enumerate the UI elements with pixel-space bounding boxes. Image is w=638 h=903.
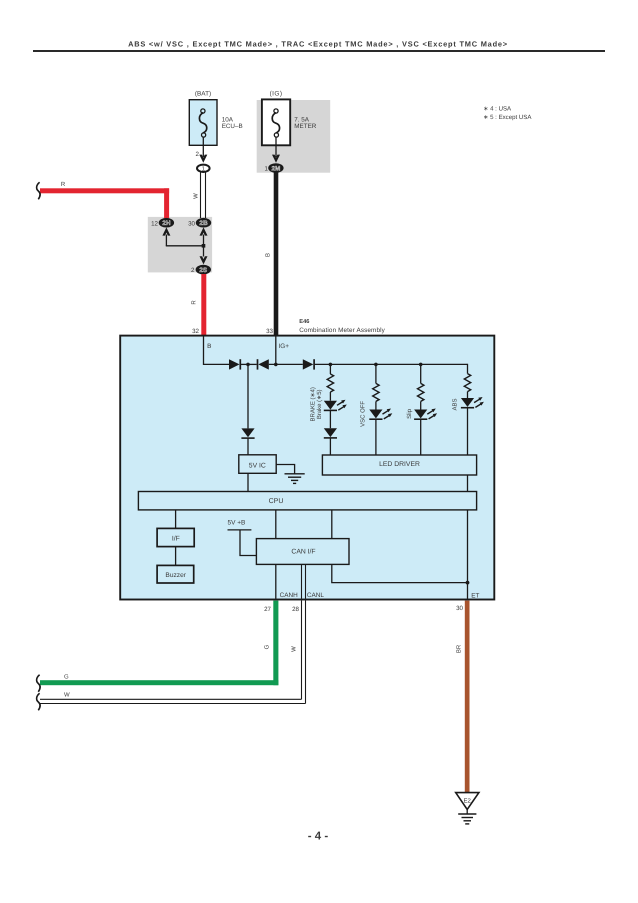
wire R red from left edge to 2H (40, 188, 169, 193)
resistor R1 (327, 374, 333, 392)
wire CPU to I/F (175, 510, 177, 529)
wire from pin B (204, 336, 230, 364)
LED BRAKE indicator (324, 400, 347, 411)
svg-text:5V +B: 5V +B (228, 520, 246, 527)
LED ABS indicator (461, 397, 484, 408)
svg-text:Brake (∗5): Brake (∗5) (316, 389, 323, 419)
node dot VSC OFF column (374, 363, 378, 367)
LED Slip indicator (414, 409, 437, 420)
wire (269, 363, 303, 365)
title header (33, 40, 605, 52)
LED DRIVER box (322, 455, 476, 475)
resistor R3 (418, 383, 424, 401)
junction block J/B gray background (148, 217, 212, 273)
wire (329, 410, 331, 428)
wire inside J/B (165, 235, 167, 246)
svg-text:ECU–B: ECU–B (222, 123, 243, 130)
svg-text:IG+: IG+ (279, 343, 290, 350)
wire (420, 419, 422, 455)
svg-text:2S: 2S (199, 267, 208, 274)
wire ABS column (467, 364, 469, 374)
resistor R2 (373, 383, 379, 401)
wire R red from 2S to meter pin 32 (201, 274, 206, 337)
svg-text:G: G (64, 674, 69, 681)
svg-text:- 4 -: - 4 - (308, 831, 329, 843)
diode D3 (303, 359, 314, 369)
svg-text:32: 32 (192, 328, 199, 335)
wire (247, 438, 249, 455)
wire 5V IC to CPU (247, 473, 249, 491)
wire-end squiggle (37, 693, 41, 710)
wire from pin IG+ (275, 336, 277, 364)
I/F box (157, 528, 194, 546)
junction square (202, 244, 206, 248)
svg-text:∗ 5 : Except USA: ∗ 5 : Except USA (483, 114, 532, 121)
svg-text:2H: 2H (162, 220, 171, 227)
node junction dot (246, 363, 250, 367)
svg-text:CPU: CPU (269, 498, 284, 505)
wire VSC OFF column (375, 364, 377, 383)
arrow up into 2B (200, 227, 208, 235)
svg-text:ABS <w/ VSC , Except TMC Made>: ABS <w/ VSC , Except TMC Made> , TRAC <E… (128, 40, 508, 49)
svg-text:2B: 2B (199, 220, 208, 227)
wire-end squiggle (37, 675, 41, 692)
diode D5 (241, 428, 254, 437)
svg-text:G: G (263, 644, 270, 649)
svg-text:CANL: CANL (307, 592, 324, 599)
resistor R4 (464, 374, 470, 392)
connector 2S oval (191, 266, 210, 275)
ground E2 (456, 793, 479, 824)
wire-end squiggle (37, 182, 41, 199)
node dot Slip column (419, 363, 423, 367)
wire to ground (276, 465, 294, 474)
svg-text:12: 12 (151, 220, 158, 227)
wire from fuse IG to connector 2M (275, 137, 277, 157)
svg-text:E2: E2 (464, 797, 472, 804)
arrow into connector 2M (272, 155, 280, 163)
svg-text:B: B (265, 253, 272, 257)
diode D2 (257, 359, 259, 369)
fuse F1 (BAT) 10A ECU-B (189, 91, 217, 146)
wire from fuse BAT to connector 1 (202, 137, 204, 157)
wire (467, 408, 469, 455)
svg-text:1: 1 (265, 166, 269, 173)
svg-text:ABS: ABS (451, 398, 458, 410)
svg-text:CANH: CANH (280, 592, 298, 599)
diode D4 (324, 428, 337, 437)
wire (375, 401, 377, 409)
wire (241, 363, 257, 365)
svg-text:W: W (291, 646, 298, 652)
CPU box (138, 492, 476, 510)
svg-text:CAN I/F: CAN I/F (291, 548, 315, 555)
wire 5V IC branch (247, 364, 249, 428)
wire CANH inside (275, 564, 277, 598)
connector 1 oval (197, 165, 210, 172)
wire W white double from connector 1 to 2B (200, 172, 202, 218)
CAN I/F box (256, 539, 349, 565)
wire (329, 438, 331, 455)
E46 combination meter assembly box (120, 336, 494, 600)
svg-text:BR: BR (455, 644, 462, 653)
wire (329, 392, 331, 401)
5V IC box (239, 455, 276, 474)
connector 2B oval (188, 219, 210, 228)
svg-text:27: 27 (264, 606, 271, 613)
wire CPU to CAN I/F right (331, 510, 333, 539)
bus wire to LED columns (315, 363, 468, 365)
wire BR brown from pin 30 (465, 601, 470, 793)
svg-text:(IG): (IG) (270, 91, 283, 98)
svg-text:30: 30 (188, 220, 195, 227)
svg-text:BRAKE (∗4): BRAKE (∗4) (309, 387, 316, 421)
IG fuse gray background (257, 100, 331, 173)
arrow up into 2H (162, 227, 170, 235)
svg-text:(BAT): (BAT) (195, 91, 211, 98)
svg-text:Buzzer: Buzzer (165, 572, 186, 579)
svg-text:2M: 2M (271, 165, 280, 172)
svg-text:2: 2 (196, 151, 200, 158)
svg-text:R: R (191, 300, 198, 305)
svg-text:28: 28 (292, 606, 299, 613)
svg-text:W: W (193, 193, 200, 199)
wire I/F to Buzzer (175, 547, 177, 566)
wire (467, 392, 469, 398)
svg-text:5V IC: 5V IC (249, 463, 266, 470)
svg-text:30: 30 (456, 605, 463, 612)
wire ET net lower segment (467, 510, 469, 599)
wire BRAKE column (329, 364, 331, 374)
diode D1 (229, 359, 240, 369)
svg-text:VSC OFF: VSC OFF (360, 401, 367, 427)
node junction dot ET (466, 581, 470, 585)
wire Slip column (420, 364, 422, 383)
wire ET net upper segment (467, 475, 469, 492)
LED VSC OFF indicator (369, 409, 392, 420)
node dot BRAKE column (329, 363, 333, 367)
svg-text:R: R (61, 181, 66, 188)
svg-text:Combination Meter Assembly: Combination Meter Assembly (299, 327, 385, 334)
connector 2H oval (151, 219, 173, 228)
wire G green from pin 27 (273, 601, 278, 686)
fuse F2 (IG) 7.5A METER (262, 91, 290, 146)
svg-text:B: B (207, 343, 211, 350)
svg-text:METER: METER (294, 123, 316, 130)
arrow into connector 1 (199, 155, 207, 163)
connector 2M oval (269, 164, 283, 172)
wire CAN I/F to ET net (332, 564, 468, 582)
wire 5V +B to CAN I/F (228, 529, 252, 531)
svg-text:W: W (64, 692, 70, 699)
svg-text:LED DRIVER: LED DRIVER (379, 461, 420, 468)
ground (285, 474, 305, 484)
wire (420, 401, 422, 409)
svg-text:ET: ET (471, 592, 479, 599)
svg-text:∗ 4 : USA: ∗ 4 : USA (483, 106, 512, 113)
svg-text:2: 2 (191, 267, 195, 274)
svg-text:E46: E46 (299, 319, 309, 325)
svg-text:Slip: Slip (406, 408, 413, 419)
node junction dot (274, 363, 278, 367)
svg-text:I/F: I/F (172, 536, 180, 543)
Buzzer box (157, 565, 194, 583)
wire W white double from pin 28 (40, 698, 302, 700)
wire B black from 2M to meter pin 33 (274, 172, 279, 337)
wire CANL inside double (301, 564, 303, 598)
wire (375, 419, 377, 455)
svg-text:33: 33 (266, 328, 273, 335)
wire CPU to CAN I/F left (275, 510, 277, 539)
arrow down into 2S (200, 256, 208, 264)
